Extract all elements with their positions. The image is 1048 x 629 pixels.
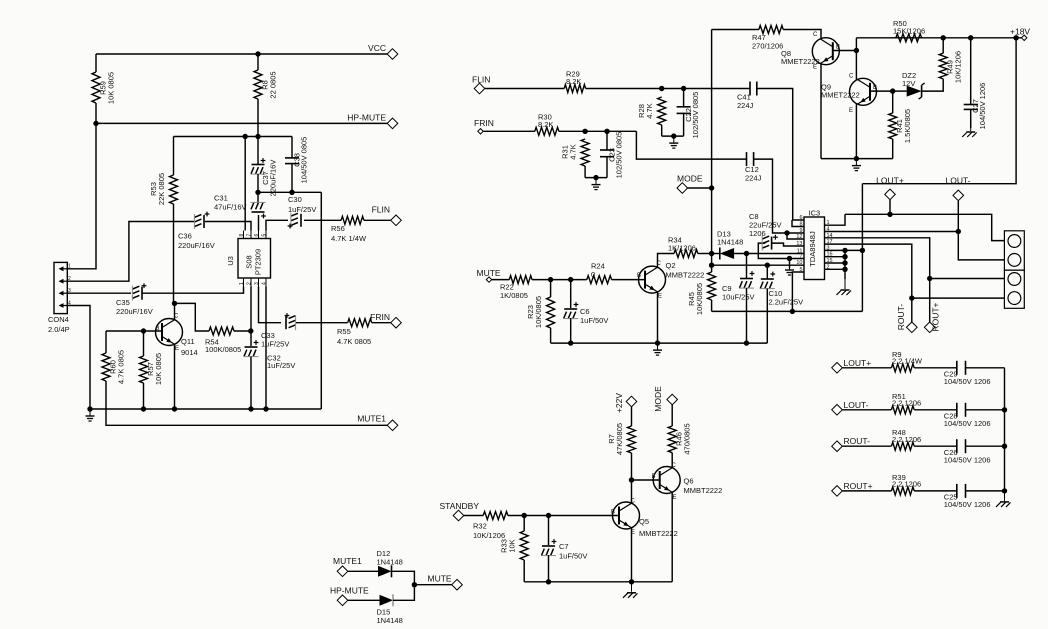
node junction: [412, 582, 417, 587]
capacitor C29: [944, 361, 991, 386]
svg-text:HP-MUTE: HP-MUTE: [347, 113, 386, 123]
wire R29 to C41: [586, 88, 750, 90]
wire LOUT- to terminal: [958, 232, 1004, 260]
wire pin8 stub: [792, 220, 804, 227]
node FRIN2: [478, 129, 483, 134]
diode D15 1N4148: [377, 594, 403, 625]
svg-text:Q2: Q2: [666, 261, 676, 270]
svg-text:MUTE1: MUTE1: [333, 556, 362, 566]
wire HP-MUTE rail: [96, 122, 387, 124]
wire C10 top: [766, 265, 768, 279]
wire C6 bottom: [570, 318, 572, 343]
node junction: [956, 229, 961, 234]
svg-text:MMBT2222: MMBT2222: [666, 271, 705, 280]
wire Q9 emitter: [855, 104, 857, 159]
node FLIN: [391, 215, 402, 226]
node ROUT+: [924, 322, 935, 333]
wire standby gnd rail: [524, 581, 672, 583]
ground GND: [785, 263, 794, 275]
svg-text:C36: C36: [178, 232, 192, 241]
ground GND: [653, 343, 662, 355]
wire LOUT+ stem: [889, 200, 891, 215]
wire to C12: [636, 131, 746, 159]
wire R7 top: [631, 407, 633, 426]
resistor R57: [140, 353, 164, 385]
net label HP-MUTE: [347, 113, 386, 123]
svg-text:MUTE: MUTE: [428, 574, 452, 584]
svg-text:2.2 1206: 2.2 1206: [892, 435, 921, 444]
wire R31-C23 gnd: [585, 177, 607, 179]
net label LOUT-: [945, 176, 970, 186]
ground GND: [623, 582, 638, 598]
node junction: [744, 340, 749, 345]
wire C7 top: [548, 516, 550, 546]
node junction: [909, 295, 914, 300]
svg-text:4.7K: 4.7K: [569, 144, 578, 159]
node junction: [263, 406, 268, 411]
wire +18V rail: [856, 37, 1021, 39]
wire U3 pin8 riser: [244, 137, 246, 231]
resistor R51: [891, 392, 921, 414]
wire Q11 base wire: [106, 330, 162, 332]
transistor Q5: [611, 499, 678, 539]
resistor R33: [500, 531, 529, 560]
wire C9 top: [746, 254, 748, 279]
svg-text:7: 7: [247, 234, 253, 237]
wire VCC rail: [96, 53, 387, 55]
node junction: [87, 406, 92, 411]
wire Q5 emitter: [631, 528, 633, 582]
wire Q8 emitter: [820, 64, 822, 159]
svg-text:7: 7: [799, 254, 802, 260]
wire C31 bottom: [258, 215, 260, 231]
wire D13 to pin11: [734, 253, 804, 255]
wire C29 to rail: [966, 367, 1005, 369]
wire C37 top rail: [174, 136, 293, 138]
wire R23 bottom: [550, 328, 552, 343]
wire collector to R54: [175, 303, 210, 331]
svg-text:Q11: Q11: [181, 337, 195, 346]
node HP-MUTE: [387, 118, 398, 129]
ground GND: [962, 121, 977, 137]
wire CON4 pin3 wire: [67, 292, 131, 294]
wire pin10 row: [712, 264, 804, 266]
transistor Q2: [637, 261, 704, 300]
capacitor C33 1uF/25V: [261, 313, 296, 348]
wire FRIN wire: [296, 322, 348, 324]
wire R39 to C25: [914, 490, 957, 492]
wire CON4 pin2 net: [67, 222, 195, 282]
resistor R59: [92, 72, 116, 104]
wire pin16 row: [825, 256, 846, 258]
ground GND: [996, 491, 1011, 507]
resistor R60: [102, 350, 126, 384]
wire C32 bottom: [250, 357, 252, 410]
label C32: [267, 354, 295, 371]
svg-text:6: 6: [254, 234, 260, 237]
svg-text:10K/0805: 10K/0805: [695, 283, 704, 315]
svg-text:1.5K/0805: 1.5K/0805: [903, 109, 912, 143]
ground GND: [592, 178, 601, 190]
transistor Q11: [156, 314, 198, 358]
wire R30 right: [559, 130, 637, 132]
wire ROUT- to terminal: [912, 297, 1005, 299]
net label FRIN: [474, 118, 494, 128]
wire STANDBY wire: [464, 515, 483, 517]
node junction: [1013, 35, 1018, 40]
node FRIN: [391, 317, 402, 328]
wire R57 top: [143, 331, 145, 356]
wire HP-MUTE to CON4 pin1: [67, 123, 96, 268]
node junction: [548, 277, 553, 282]
wire C23 bottom: [606, 157, 608, 178]
svg-text:102/50V 0805: 102/50V 0805: [614, 132, 623, 179]
svg-text:1uF/50V: 1uF/50V: [580, 316, 608, 325]
svg-text:1: 1: [239, 282, 245, 285]
wire C10 bottom: [766, 289, 768, 344]
svg-text:U3: U3: [226, 256, 235, 266]
node VCC: [387, 49, 398, 60]
node LOUT-z: [832, 405, 843, 416]
node junction: [709, 263, 714, 268]
net label LOUT-: [844, 400, 869, 410]
capacitor C23: [600, 132, 623, 179]
svg-text:3: 3: [68, 288, 71, 294]
net label FLIN: [472, 75, 490, 85]
svg-text:1K/0805: 1K/0805: [500, 291, 528, 300]
diode D12 1N4148: [377, 549, 403, 577]
wire C38 top: [291, 137, 293, 158]
svg-text:220uF/16V: 220uF/16V: [178, 241, 215, 250]
resistor R28: [637, 97, 666, 125]
svg-text:4: 4: [262, 282, 268, 285]
wire MUTE1 wire: [348, 570, 378, 572]
capacitor C38 104/50V 0805: [285, 137, 308, 184]
wire R8 bottom: [257, 99, 259, 137]
wire MUTE out wire: [414, 584, 451, 586]
svg-text:E: E: [813, 65, 817, 71]
resistor R8: [254, 70, 278, 99]
node junction: [593, 175, 598, 180]
wire R28-C22 gnd: [662, 135, 684, 137]
wire Q2 emitter: [657, 292, 659, 343]
svg-text:MMBT2222: MMBT2222: [684, 486, 723, 495]
wire C26 to rail: [966, 445, 1005, 447]
node MUTEb: [452, 579, 463, 590]
wire R23 top: [550, 280, 552, 297]
wire ground distribution: [258, 191, 321, 193]
svg-text:FRIN: FRIN: [370, 312, 390, 322]
wire HP-MUTE wire: [348, 599, 380, 601]
wire R59 bottom: [95, 103, 97, 123]
wire C27 bottom: [970, 109, 972, 128]
wire analog gnd rail: [551, 342, 768, 344]
wire C35 to U3 pin1: [142, 287, 244, 294]
wire pin7 gnd stub: [789, 259, 791, 269]
wire C31 top: [257, 192, 259, 204]
svg-text:5: 5: [799, 267, 802, 273]
resistor R29: [564, 70, 585, 93]
svg-text:104/50V 1206: 104/50V 1206: [944, 455, 991, 464]
net label MODE: [653, 386, 663, 412]
svg-text:5: 5: [262, 234, 268, 237]
svg-text:15K/1206: 15K/1206: [893, 27, 925, 36]
svg-text:MODE: MODE: [653, 386, 663, 412]
resistor R48: [891, 428, 921, 450]
label C9: [722, 284, 755, 302]
wire R51 to C28: [914, 409, 957, 411]
connector CON4: [48, 262, 71, 334]
wire C38 bottom: [291, 164, 293, 193]
wire R41 top: [892, 91, 894, 113]
wire VP bottom wire: [712, 310, 863, 312]
node +22V: [626, 396, 637, 407]
connector speaker terminals: [1004, 231, 1024, 309]
svg-text:10: 10: [796, 260, 802, 266]
svg-text:B: B: [652, 474, 656, 480]
svg-text:C31: C31: [214, 194, 228, 203]
wire pin5 drop: [792, 272, 804, 311]
wire Q8 base: [833, 50, 857, 52]
wire C36 to U3 pin7: [205, 222, 251, 231]
capacitor C10: [760, 272, 775, 289]
capacitor C35 220uF/16V: [116, 283, 153, 316]
svg-text:10K/1206: 10K/1206: [473, 531, 505, 540]
svg-text:+18V: +18V: [1010, 27, 1030, 37]
resistor R46: [668, 423, 692, 454]
svg-text:LOUT-: LOUT-: [945, 176, 970, 186]
wire U3 pin2 riser: [250, 287, 252, 347]
svg-text:1uF/25V: 1uF/25V: [288, 205, 316, 214]
capacitor C6: [563, 302, 578, 319]
svg-text:PT2309: PT2309: [254, 249, 263, 275]
node junction: [842, 248, 847, 253]
svg-text:C7: C7: [559, 542, 569, 551]
wire C37 leads: [257, 137, 259, 165]
resistor R31: [561, 139, 590, 166]
resistor R47: [752, 26, 783, 51]
svg-text:C: C: [813, 32, 818, 38]
svg-text:100K/0805: 100K/0805: [205, 345, 241, 354]
node junction: [546, 579, 551, 584]
wire to D13: [712, 253, 720, 255]
resistor R22: [500, 276, 532, 300]
wire MUTE wire: [492, 279, 510, 281]
wire ROUT+ to terminal: [930, 278, 1005, 280]
svg-text:220uF/16V: 220uF/16V: [269, 160, 278, 197]
svg-text:220uF/16V: 220uF/16V: [116, 307, 153, 316]
svg-text:E: E: [175, 346, 179, 352]
net label MUTE: [428, 574, 452, 584]
transistor Q6: [652, 463, 723, 501]
capacitor C27: [964, 83, 987, 130]
wire pin14 to ROUT+: [825, 238, 930, 322]
node junction: [255, 190, 260, 195]
wire zobel gnd rail: [1004, 368, 1006, 491]
svg-text:104/50V 1206: 104/50V 1206: [944, 500, 991, 509]
wire U3 pin5 to C30: [266, 220, 288, 230]
node junction: [842, 267, 847, 272]
ground GND: [86, 409, 95, 421]
net label MUTE: [477, 268, 501, 278]
svg-text:Q6: Q6: [684, 477, 694, 486]
capacitor C26: [944, 439, 991, 464]
svg-text:104/50V 0805: 104/50V 0805: [299, 137, 308, 184]
net label ROUT+: [844, 481, 873, 491]
resistor R55: [337, 319, 372, 346]
svg-text:R56: R56: [331, 224, 345, 233]
wire gnd riser: [320, 192, 322, 409]
wire R60 top: [105, 331, 107, 353]
svg-text:10K: 10K: [508, 539, 517, 552]
node junction: [860, 248, 865, 253]
node junction: [568, 340, 573, 345]
wire Q6 base wire: [632, 479, 660, 481]
svg-text:104/50V 1206: 104/50V 1206: [944, 377, 991, 386]
svg-text:1: 1: [68, 264, 71, 270]
svg-text:+22V: +22V: [614, 393, 624, 413]
wire R60 to MUTE1: [106, 381, 387, 425]
svg-text:C35: C35: [116, 298, 130, 307]
svg-text:C6: C6: [580, 307, 590, 316]
resistor R34: [668, 236, 698, 258]
wire pin17 to ROUT-: [825, 244, 912, 322]
node junction: [887, 212, 892, 217]
wire R56 to FLIN: [364, 219, 391, 221]
node MUTE1b: [337, 566, 348, 577]
svg-text:E: E: [658, 294, 662, 300]
node junction: [172, 301, 177, 306]
svg-text:2.2 1206: 2.2 1206: [892, 480, 921, 489]
wire D12 to MUTE: [392, 571, 415, 584]
resistor R23: [526, 296, 555, 328]
wire C28 to rail: [966, 409, 1005, 411]
node MUTE1: [387, 420, 398, 431]
svg-text:VCC: VCC: [368, 43, 386, 53]
net label VCC: [368, 43, 386, 53]
node junction: [842, 260, 847, 265]
node HP-MUTEb: [337, 595, 348, 606]
node junction: [243, 134, 248, 139]
node +18V: [1022, 35, 1027, 40]
label C7: [559, 542, 587, 561]
svg-text:22 0805: 22 0805: [269, 71, 278, 98]
svg-text:1K/1206: 1K/1206: [668, 243, 696, 252]
node junction: [854, 48, 859, 53]
ground GND: [852, 159, 861, 171]
wire Q8/Q9 emitter rail: [821, 158, 893, 160]
wire Q11 collector: [174, 303, 176, 320]
resistor R45: [687, 272, 716, 315]
resistor R32: [473, 512, 508, 541]
svg-text:1206: 1206: [749, 229, 766, 238]
svg-text:8: 8: [239, 234, 245, 237]
svg-text:8.2K: 8.2K: [538, 120, 553, 129]
net label ROUT+: [931, 302, 941, 331]
svg-text:10K/0805: 10K/0805: [534, 296, 543, 328]
wire R8 top: [257, 54, 259, 70]
wire VP riser: [861, 184, 863, 312]
svg-text:HP-MUTE: HP-MUTE: [330, 586, 369, 596]
svg-text:1uF/25V: 1uF/25V: [261, 340, 289, 349]
svg-text:C: C: [849, 74, 854, 80]
wire MODE wire: [688, 187, 712, 189]
wire pin3 row: [825, 249, 863, 251]
wire D15 to MUTE: [393, 585, 414, 601]
wire Q11 emitter: [174, 344, 176, 409]
wire R53 top: [173, 137, 175, 176]
net label FRIN: [370, 312, 390, 322]
wire FLIN wire: [485, 88, 564, 90]
wire Q6 emitter: [671, 492, 673, 582]
svg-text:LOUT-: LOUT-: [844, 400, 869, 410]
node junction: [172, 406, 177, 411]
svg-text:MUTE: MUTE: [477, 268, 501, 278]
resistor R41: [889, 109, 913, 143]
resistor R54: [205, 327, 241, 354]
wire Q6 collector: [671, 453, 673, 468]
wire U3 pin4 riser: [265, 287, 267, 410]
node junction: [765, 263, 770, 268]
svg-text:1N4148: 1N4148: [377, 558, 403, 567]
wire LOUT+ row: [845, 214, 1004, 240]
wire R57 bottom: [143, 383, 145, 409]
svg-text:270/1206: 270/1206: [752, 42, 783, 51]
wire C8 right to pin13: [772, 243, 804, 246]
ic U3 PT2309: [226, 231, 271, 287]
capacitor C36 220uF/16V: [178, 212, 215, 250]
node junction: [568, 277, 573, 282]
wire C23 top: [606, 131, 608, 150]
svg-text:10K/1206: 10K/1206: [954, 51, 963, 83]
capacitor C22: [677, 92, 700, 139]
wire C7 bottom: [548, 555, 550, 582]
svg-text:47uF/16V: 47uF/16V: [214, 203, 247, 212]
svg-text:2: 2: [247, 282, 253, 285]
transistor Q9: [821, 74, 877, 115]
capacitor C32 1uF/25V: [244, 340, 259, 357]
label C31: [214, 194, 247, 212]
wire R31 bottom: [584, 166, 586, 178]
ic IC3 TDA8948J: [796, 209, 832, 280]
svg-text:4: 4: [68, 300, 71, 306]
svg-text:R55: R55: [337, 327, 351, 336]
node junction: [546, 513, 551, 518]
capacitor C31 47uF/16V: [251, 202, 266, 218]
node junction: [671, 133, 676, 138]
svg-text:12: 12: [796, 234, 802, 240]
node junction: [659, 86, 664, 91]
svg-text:10K 0805: 10K 0805: [107, 72, 116, 104]
label C10: [769, 289, 804, 307]
node junction: [790, 309, 795, 314]
resistor R49: [939, 51, 963, 83]
net label ROUT-: [844, 436, 871, 446]
svg-text:2.2 1206: 2.2 1206: [892, 399, 921, 408]
svg-text:104/50V 1206: 104/50V 1206: [978, 83, 987, 130]
node MODE2: [667, 394, 678, 405]
capacitor C9: [739, 271, 754, 288]
svg-text:4.7K 1/4W: 4.7K 1/4W: [331, 234, 367, 243]
node ROUT-: [907, 322, 918, 333]
node junction: [289, 190, 294, 195]
net label MODE: [677, 174, 703, 184]
wire R46 top: [671, 405, 673, 426]
wire pin4 row: [825, 231, 959, 233]
wire pin2 row: [825, 268, 846, 270]
svg-text:FLIN: FLIN: [372, 205, 390, 215]
node junction: [1002, 407, 1007, 412]
